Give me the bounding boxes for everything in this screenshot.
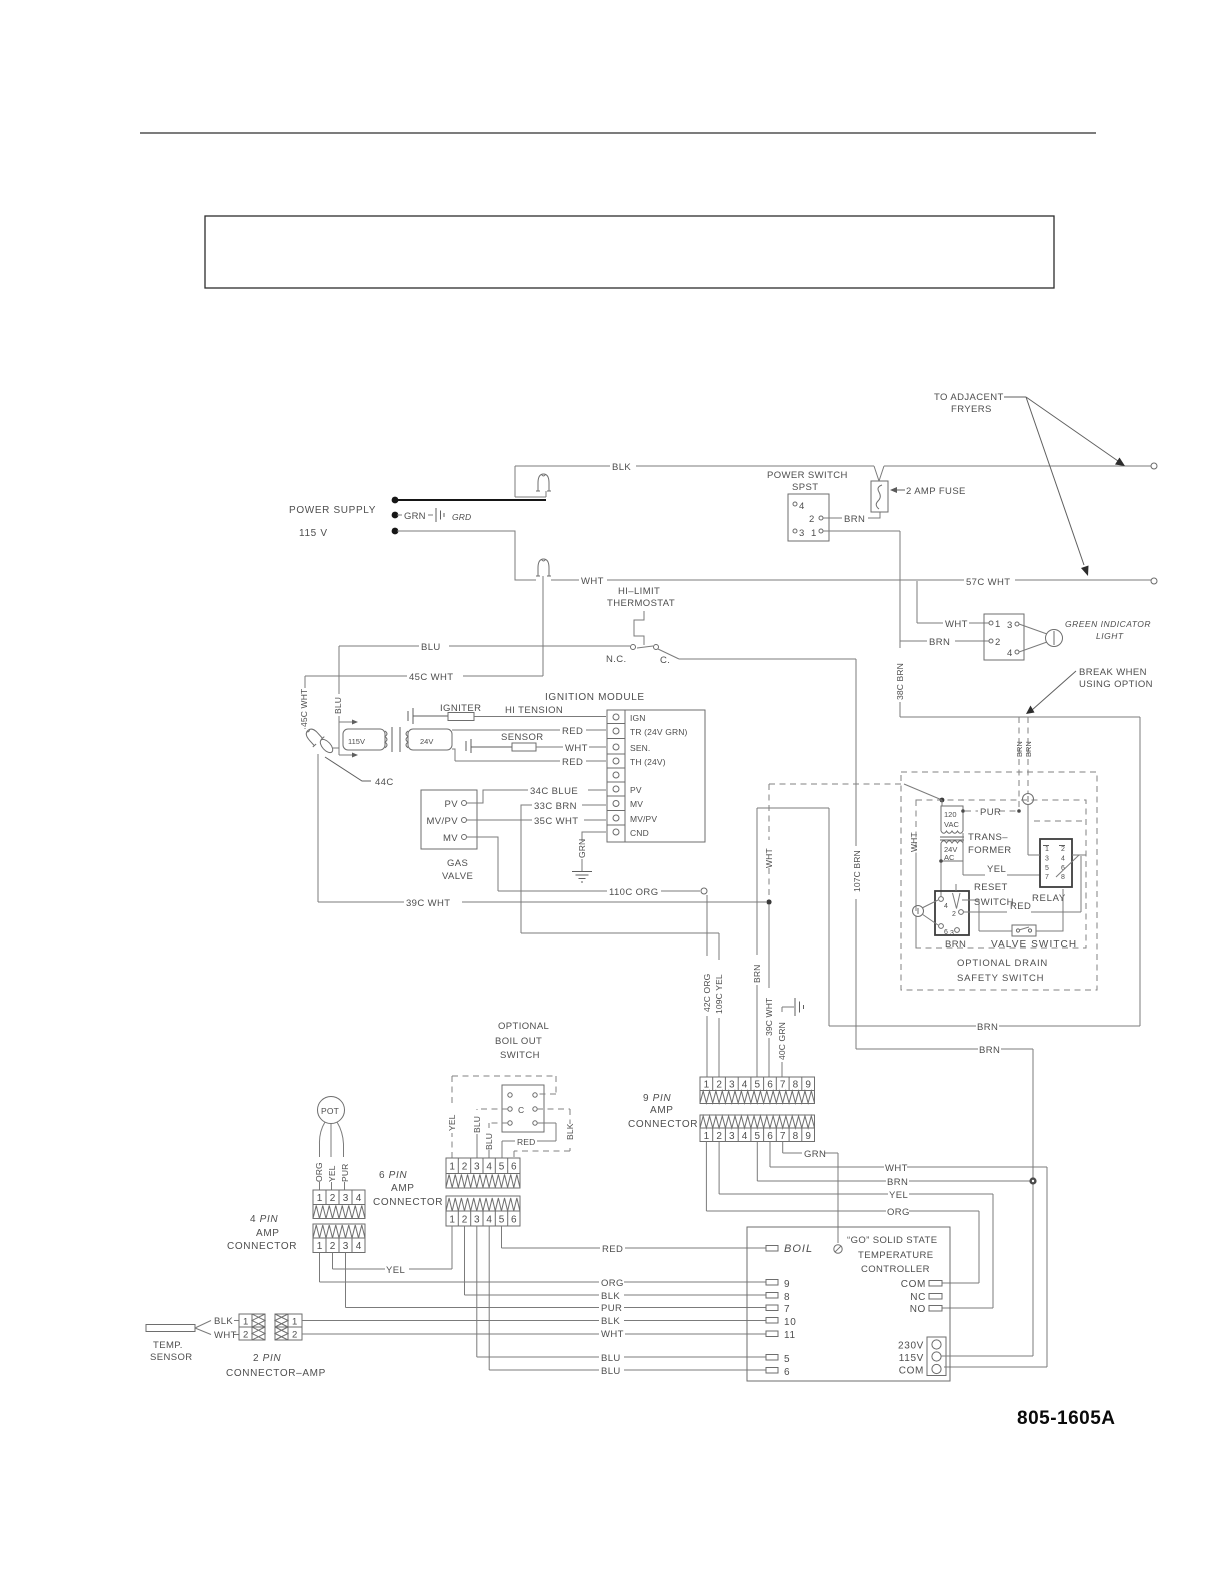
connector circle 1 jumper	[913, 906, 924, 917]
svg-text:AMP: AMP	[256, 1228, 280, 1239]
svg-text:PV: PV	[630, 785, 642, 795]
svg-text:BRN: BRN	[844, 514, 865, 525]
wire PUR from POT	[337, 1122, 345, 1190]
svg-text:24V: 24V	[420, 737, 433, 746]
wire 109C YEL riser	[718, 933, 720, 1077]
svg-text:5: 5	[499, 1215, 505, 1226]
igniter spark gap	[408, 708, 448, 724]
svg-text:5: 5	[499, 1162, 505, 1173]
svg-text:805-1605A: 805-1605A	[1017, 1408, 1116, 1429]
svg-text:3: 3	[474, 1215, 480, 1226]
pin 4	[793, 502, 797, 506]
svg-text:2: 2	[243, 1330, 249, 1341]
svg-text:BLU: BLU	[421, 642, 441, 653]
svg-text:CND: CND	[630, 828, 649, 838]
wire BRN stub to light pin2	[900, 640, 989, 642]
svg-text:SWITCH: SWITCH	[500, 1050, 540, 1061]
svg-text:BOIL OUT: BOIL OUT	[495, 1036, 542, 1047]
svg-text:GRN: GRN	[404, 511, 426, 522]
svg-text:1: 1	[811, 528, 817, 539]
svg-text:57C WHT: 57C WHT	[966, 577, 1011, 588]
svg-text:6: 6	[511, 1162, 517, 1173]
svg-text:BRN: BRN	[929, 637, 950, 648]
svg-text:8: 8	[793, 1131, 799, 1142]
wire RED 24V to TR	[452, 729, 606, 731]
svg-text:4: 4	[799, 501, 805, 512]
wire WHT from supply	[397, 531, 536, 580]
svg-text:WHT: WHT	[945, 619, 968, 630]
svg-text:ORG: ORG	[601, 1278, 624, 1289]
drain transformer core	[940, 837, 964, 840]
node adjacent-fryer terminal bottom	[1151, 578, 1157, 584]
svg-text:BOIL: BOIL	[784, 1243, 813, 1255]
node adjacent-fryer terminal top	[1151, 463, 1157, 469]
svg-text:BLU: BLU	[333, 697, 343, 714]
svg-text:AMP: AMP	[391, 1183, 415, 1194]
svg-text:2: 2	[462, 1215, 468, 1226]
svg-text:9: 9	[805, 1080, 811, 1091]
svg-text:39C WHT: 39C WHT	[406, 898, 451, 909]
svg-text:7: 7	[784, 1304, 790, 1315]
svg-text:2: 2	[952, 911, 956, 918]
svg-text:TH (24V): TH (24V)	[630, 757, 666, 767]
wire BLU dashed to pin3	[477, 1109, 508, 1110]
svg-text:110C ORG: 110C ORG	[609, 887, 659, 898]
svg-text:2: 2	[1061, 846, 1065, 853]
svg-text:33C BRN: 33C BRN	[534, 801, 577, 812]
fuse pointer arrow	[893, 489, 905, 491]
svg-text:2: 2	[330, 1193, 336, 1204]
svg-text:SPST: SPST	[792, 482, 818, 493]
svg-text:RED: RED	[517, 1137, 535, 1147]
wire YEL from POT	[330, 1124, 333, 1191]
wire 45C WHT	[305, 576, 543, 729]
svg-text:THERMOSTAT: THERMOSTAT	[607, 598, 675, 609]
voltage select block	[927, 1337, 946, 1376]
svg-text:5: 5	[784, 1354, 790, 1365]
svg-text:FRYERS: FRYERS	[951, 404, 992, 415]
svg-text:4: 4	[1007, 648, 1013, 659]
wire WHT main run 57C	[551, 579, 1151, 581]
svg-text:IGNITION MODULE: IGNITION MODULE	[545, 692, 645, 703]
svg-text:1: 1	[243, 1317, 249, 1328]
wire BLU line	[339, 645, 630, 647]
wire 42C ORG riser	[706, 895, 708, 1077]
drain WHT leg to jumper	[915, 800, 917, 906]
svg-text:2: 2	[716, 1080, 722, 1091]
node power L1	[392, 497, 399, 504]
svg-text:VALVE SWITCH: VALVE SWITCH	[991, 939, 1077, 950]
svg-text:BRN: BRN	[945, 939, 966, 950]
svg-text:NC: NC	[910, 1292, 926, 1303]
wire WHT into drain box	[769, 783, 904, 785]
svg-text:MV: MV	[443, 833, 458, 844]
connector circle 1 on BRN	[1023, 794, 1034, 805]
svg-text:3: 3	[729, 1131, 735, 1142]
svg-text:5: 5	[755, 1080, 761, 1091]
transformer core	[392, 727, 400, 752]
svg-text:WHT: WHT	[581, 576, 604, 587]
junction BRN/115V	[1029, 1177, 1036, 1184]
earth ground GRN	[572, 872, 592, 883]
temp sensor probe	[146, 1325, 195, 1332]
svg-text:YEL: YEL	[386, 1265, 405, 1276]
wire 33C BRN from MV terminal	[521, 805, 719, 933]
svg-text:CONNECTOR: CONNECTOR	[373, 1197, 443, 1208]
svg-text:SENSOR: SENSOR	[501, 732, 544, 743]
svg-text:45C WHT: 45C WHT	[299, 689, 309, 727]
svg-text:COM: COM	[899, 1366, 924, 1377]
wire BLU riser to transformer	[338, 646, 340, 722]
svg-text:4: 4	[486, 1215, 492, 1226]
fuse break V	[874, 466, 884, 481]
svg-text:ORG: ORG	[887, 1207, 910, 1218]
connector 44C bell	[302, 725, 324, 747]
quick-disconnect bell BLK	[536, 474, 551, 491]
svg-text:9 PIN: 9 PIN	[643, 1093, 671, 1104]
svg-text:34C BLUE: 34C BLUE	[530, 786, 578, 797]
dashed link to relay pin4	[1034, 820, 1086, 822]
svg-text:WHT: WHT	[601, 1329, 624, 1340]
svg-text:BRN: BRN	[752, 965, 762, 983]
svg-text:CONTROLLER: CONTROLLER	[861, 1264, 930, 1275]
svg-text:115 V: 115 V	[299, 528, 328, 539]
svg-text:SAFETY SWITCH: SAFETY SWITCH	[957, 973, 1044, 984]
svg-text:RED: RED	[562, 757, 583, 768]
terminal 9	[766, 1280, 778, 1286]
svg-text:GAS: GAS	[447, 858, 468, 869]
4-pin lower strip	[313, 1224, 365, 1253]
svg-text:TO ADJACENT: TO ADJACENT	[934, 392, 1004, 403]
svg-text:5: 5	[755, 1131, 761, 1142]
svg-text:1: 1	[449, 1162, 455, 1173]
terminal 8	[766, 1293, 778, 1299]
svg-text:BREAK WHEN: BREAK WHEN	[1079, 667, 1147, 678]
wire WHT stub to light pin1	[917, 581, 989, 623]
wire RED reset pin2	[964, 856, 1081, 912]
leader break arrow	[1032, 671, 1076, 710]
wire WHT pin6 to controller COM	[770, 1142, 1047, 1368]
svg-text:109C YEL: 109C YEL	[714, 974, 724, 1014]
terminal 5	[766, 1355, 778, 1361]
svg-text:230V: 230V	[898, 1341, 924, 1352]
svg-text:GRN: GRN	[577, 839, 587, 858]
svg-text:7: 7	[780, 1131, 786, 1142]
svg-text:39C WHT: 39C WHT	[764, 998, 774, 1036]
wire BLU to pin4	[489, 1123, 508, 1128]
wire YEL pin2 to controller NO	[719, 1142, 993, 1309]
svg-text:3: 3	[1007, 620, 1013, 631]
svg-text:107C BRN: 107C BRN	[852, 850, 862, 892]
svg-text:8: 8	[793, 1080, 799, 1091]
svg-text:1: 1	[317, 1193, 323, 1204]
svg-text:BRN: BRN	[887, 1177, 908, 1188]
wire BLK dashed to pin6	[514, 1109, 570, 1158]
svg-text:RED: RED	[562, 726, 583, 737]
drain transformer 24VAC	[941, 843, 963, 861]
svg-text:PV: PV	[445, 799, 459, 810]
svg-text:2: 2	[716, 1131, 722, 1142]
wire BRN bypass top run	[900, 717, 1140, 1026]
svg-text:4: 4	[356, 1193, 362, 1204]
wire BRN 107C to 115V	[856, 1049, 1033, 1355]
wire YEL dashed	[452, 1076, 556, 1158]
svg-text:MV/PV: MV/PV	[426, 816, 458, 827]
svg-text:2: 2	[809, 514, 815, 525]
svg-text:NO: NO	[910, 1304, 926, 1315]
ignition transformer 115V primary coil	[343, 729, 385, 750]
wire GRN from CND to ground	[582, 832, 606, 871]
plug arrows into 115V primary	[332, 722, 352, 755]
drain safety inner dashed box	[916, 800, 1086, 948]
wire WHT drain left leg	[916, 799, 942, 801]
chassis ground GRD	[436, 508, 444, 522]
svg-text:3: 3	[343, 1241, 349, 1252]
svg-text:RESET: RESET	[974, 882, 1008, 893]
wire BRN bridge over drain box	[757, 808, 829, 1077]
svg-text:BLK: BLK	[612, 462, 631, 473]
2-pin connector right half	[275, 1314, 288, 1327]
svg-text:3: 3	[729, 1080, 735, 1091]
wire 110C ORG from gas valve MV	[467, 837, 700, 891]
relay box	[1040, 839, 1072, 887]
svg-text:1: 1	[317, 1241, 323, 1252]
svg-text:WHT: WHT	[885, 1163, 908, 1174]
svg-text:BRN: BRN	[977, 1022, 998, 1033]
svg-text:115V: 115V	[348, 737, 365, 746]
wire BRN to relay pin3	[1028, 805, 1040, 855]
svg-text:TEMPERATURE: TEMPERATURE	[858, 1250, 933, 1261]
drain safety outer dashed box	[901, 772, 1097, 990]
svg-text:HI–LIMIT: HI–LIMIT	[618, 586, 660, 597]
svg-text:35C WHT: 35C WHT	[534, 816, 579, 827]
svg-text:7: 7	[780, 1080, 786, 1091]
svg-text:AMP: AMP	[650, 1105, 674, 1116]
svg-text:9: 9	[784, 1279, 790, 1290]
svg-text:ORG: ORG	[314, 1162, 324, 1182]
contact C.	[654, 645, 659, 650]
wire ORG from POT	[319, 1122, 325, 1190]
wire BLU to controller 5	[477, 1226, 766, 1357]
svg-text:VALVE: VALVE	[442, 871, 473, 882]
wire 107C BRN from C.	[679, 659, 856, 1049]
svg-text:6: 6	[767, 1131, 773, 1142]
svg-text:1: 1	[704, 1080, 710, 1091]
connector node 110C	[701, 888, 707, 894]
svg-text:38C BRN: 38C BRN	[895, 663, 905, 700]
svg-text:CONNECTOR: CONNECTOR	[628, 1119, 698, 1130]
svg-text:1: 1	[292, 1317, 298, 1328]
leader to arrows	[1004, 396, 1026, 398]
svg-text:8: 8	[1061, 874, 1065, 881]
wire WHT dashed riser	[768, 784, 770, 899]
svg-text:MV/PV: MV/PV	[630, 814, 657, 824]
earth ground 40C	[795, 998, 804, 1016]
svg-text:YEL: YEL	[889, 1190, 908, 1201]
igniter electrode	[448, 713, 474, 721]
node power L2	[392, 528, 399, 535]
svg-text:WHT: WHT	[909, 832, 919, 852]
svg-text:4: 4	[486, 1162, 492, 1173]
svg-text:BLU: BLU	[472, 1116, 482, 1133]
svg-text:BRN: BRN	[1015, 741, 1024, 757]
svg-text:WHT: WHT	[764, 848, 774, 868]
wire WHT sensor to controller 11	[302, 1333, 766, 1335]
pin 3	[793, 529, 797, 533]
wire thick L1 to disconnect	[397, 499, 546, 501]
svg-text:CONNECTOR–AMP: CONNECTOR–AMP	[226, 1368, 326, 1379]
svg-text:YEL: YEL	[987, 864, 1006, 875]
wire 34C BLUE PV	[467, 790, 606, 803]
svg-text:BLK: BLK	[565, 1123, 575, 1140]
svg-text:C: C	[518, 1105, 524, 1115]
connector 44C socket	[318, 737, 335, 755]
wire ORG to controller 9	[320, 1253, 767, 1283]
terminal 10	[766, 1318, 778, 1324]
drain transformer 120VAC	[941, 800, 943, 806]
terminal BOIL	[766, 1246, 778, 1252]
svg-text:4: 4	[356, 1241, 362, 1252]
ignition transformer 24V secondary coil	[408, 729, 452, 750]
svg-text:GRN: GRN	[804, 1149, 826, 1160]
svg-text:IGN: IGN	[630, 713, 646, 723]
svg-text:4: 4	[1061, 856, 1065, 863]
arrow to top line	[1026, 397, 1118, 461]
wire RED to pin5	[502, 1123, 556, 1158]
svg-text:10: 10	[784, 1317, 796, 1328]
svg-text:CONNECTOR: CONNECTOR	[227, 1241, 297, 1252]
wire 24VAC to reset pin4	[940, 861, 942, 897]
svg-text:40C GRN: 40C GRN	[777, 1022, 787, 1060]
svg-text:4 PIN: 4 PIN	[250, 1214, 278, 1225]
terminal 11	[766, 1331, 778, 1337]
wire PUR dashed	[961, 809, 965, 813]
empty note box	[205, 216, 1054, 288]
svg-text:4: 4	[742, 1131, 748, 1142]
svg-text:6: 6	[511, 1215, 517, 1226]
svg-text:1: 1	[704, 1131, 710, 1142]
wire BLU to controller 6	[489, 1226, 766, 1370]
wire GRN	[397, 514, 433, 516]
6-pin lower strip	[446, 1196, 520, 1226]
wire BRN reset pin6	[915, 917, 917, 948]
svg-text:POWER SWITCH: POWER SWITCH	[767, 470, 848, 481]
svg-text:MV: MV	[630, 799, 643, 809]
node power GND	[392, 512, 399, 519]
svg-text:POWER SUPPLY: POWER SUPPLY	[289, 505, 376, 516]
wire HI TENSION to IGN	[474, 716, 606, 718]
wire PUR to controller 7	[346, 1253, 767, 1308]
svg-text:TEMP.: TEMP.	[153, 1340, 183, 1351]
svg-text:2: 2	[330, 1241, 336, 1252]
wire GRN pin7 to controller screw	[783, 1142, 838, 1244]
wire BRN line to controller circuit	[829, 1025, 1140, 1027]
svg-text:OPTIONAL: OPTIONAL	[498, 1021, 549, 1032]
svg-text:OPTIONAL DRAIN: OPTIONAL DRAIN	[957, 958, 1048, 969]
wire 39C WHT	[318, 754, 766, 902]
svg-text:PUR: PUR	[601, 1303, 622, 1314]
svg-text:2: 2	[462, 1162, 468, 1173]
ground screw	[834, 1245, 842, 1253]
svg-text:115V: 115V	[899, 1353, 924, 1364]
svg-text:6 PIN: 6 PIN	[379, 1170, 407, 1181]
svg-text:BLU: BLU	[484, 1133, 494, 1150]
svg-text:11: 11	[784, 1330, 796, 1341]
svg-text:AC: AC	[944, 853, 955, 862]
9-pin upper strip	[700, 1077, 815, 1104]
svg-text:BLU: BLU	[601, 1353, 621, 1364]
fuse body	[871, 481, 888, 512]
wire pin1 to 38C BRN riser	[823, 530, 900, 532]
wire 38C BRN riser	[899, 531, 901, 717]
wire BLK line	[515, 465, 1151, 467]
svg-text:SENSOR: SENSOR	[150, 1352, 193, 1363]
wire 115V terminal	[941, 1355, 1033, 1356]
svg-text:USING OPTION: USING OPTION	[1079, 679, 1153, 690]
wire BRN pin2 to fuse	[823, 512, 880, 518]
reset blade	[953, 884, 961, 909]
svg-text:RELAY: RELAY	[1032, 893, 1066, 904]
svg-text:9: 9	[805, 1131, 811, 1142]
svg-text:LIGHT: LIGHT	[1096, 631, 1124, 641]
wire 39C WHT riser to pin6	[768, 905, 770, 1077]
svg-text:TR (24V GRN): TR (24V GRN)	[630, 727, 688, 737]
wire 40C GRN riser to pin7	[782, 1007, 794, 1077]
contact N.C.	[631, 645, 636, 650]
svg-text:44C: 44C	[375, 777, 394, 788]
svg-text:2 PIN: 2 PIN	[253, 1353, 281, 1364]
svg-text:2: 2	[995, 637, 1001, 648]
svg-text:VAC: VAC	[944, 820, 959, 829]
ignition module box	[607, 710, 705, 842]
svg-text:5: 5	[1045, 865, 1049, 872]
svg-text:45C WHT: 45C WHT	[409, 672, 454, 683]
svg-text:PUR: PUR	[340, 1164, 350, 1182]
quick-disconnect bell WHT	[536, 559, 551, 576]
2-pin connector left half	[239, 1314, 252, 1327]
wire BLK sensor to controller 10	[302, 1320, 766, 1322]
svg-text:SEN.: SEN.	[630, 743, 650, 753]
svg-text:3: 3	[1045, 856, 1049, 863]
svg-text:8: 8	[784, 1292, 790, 1303]
svg-text:YEL: YEL	[447, 1114, 457, 1131]
4-pin upper strip	[313, 1190, 365, 1219]
svg-text:BLK: BLK	[214, 1316, 233, 1327]
svg-text:3: 3	[799, 528, 805, 539]
svg-text:FORMER: FORMER	[968, 845, 1012, 856]
wire BLK riser	[515, 466, 546, 497]
svg-text:120: 120	[944, 810, 957, 819]
arrow to 57C line	[1026, 397, 1084, 565]
svg-text:BLK: BLK	[601, 1316, 620, 1327]
svg-text:PUR: PUR	[980, 807, 1001, 818]
sensor probe	[466, 739, 512, 753]
svg-text:2: 2	[292, 1330, 298, 1341]
9-pin lower strip	[700, 1115, 815, 1142]
svg-text:4: 4	[944, 903, 948, 910]
svg-text:7: 7	[1045, 874, 1049, 881]
wire ORG pin1 to controller COM	[706, 1142, 979, 1284]
svg-text:6: 6	[784, 1367, 790, 1378]
svg-text:3: 3	[343, 1193, 349, 1204]
terminal 7	[766, 1305, 778, 1311]
svg-text:SWITCH: SWITCH	[974, 897, 1014, 908]
thermostat capillary	[634, 611, 644, 645]
wire RED boil to controller	[502, 1226, 767, 1248]
svg-text:BRN: BRN	[979, 1045, 1000, 1056]
page top rule	[140, 132, 1096, 134]
switch blade	[637, 646, 679, 659]
